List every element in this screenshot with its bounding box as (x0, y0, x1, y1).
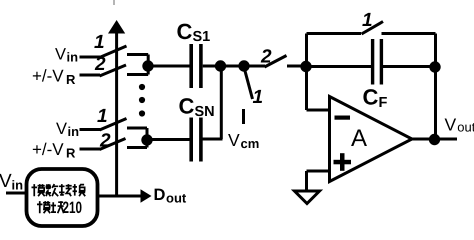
wire +/-V_R top (80, 74, 101, 77)
node V_cm label (228, 130, 259, 151)
svg-text:R: R (66, 146, 76, 161)
svg-text:1: 1 (97, 106, 108, 127)
svg-text:SN: SN (195, 104, 215, 120)
label C_F (363, 85, 388, 112)
node C junction dot (238, 60, 249, 71)
wire vertical joining contacts (147, 55, 150, 75)
wire vertical joining bottom contacts (146, 128, 149, 148)
svg-text:S1: S1 (193, 29, 211, 45)
svg-text:+/-V: +/-V (32, 140, 64, 159)
label ADC text line1 模数转换 (32, 184, 86, 196)
wire vertical node B down to C_SN rail (220, 66, 223, 139)
ADC block 210 (27, 169, 98, 226)
scan artifact tick (113, 0, 115, 5)
wire C_F to right vertical (383, 65, 436, 68)
svg-text:1: 1 (362, 10, 373, 31)
svg-text:2: 2 (99, 131, 111, 152)
switch 1 (feedback reset) (362, 22, 384, 35)
capacitor C_S1 (191, 44, 201, 88)
wire node B to node C (221, 65, 245, 68)
wire to ground (305, 171, 308, 191)
minus sign (335, 116, 351, 120)
ground (295, 191, 320, 204)
wire inverting input (307, 109, 330, 112)
svg-text:2: 2 (94, 54, 106, 75)
svg-text:V: V (0, 171, 12, 192)
capacitor C_SN (191, 118, 201, 162)
wire V_in bottom (80, 128, 101, 131)
svg-text:1: 1 (253, 87, 264, 108)
wire non-inverting input (307, 170, 330, 173)
node F junction dot (429, 61, 440, 72)
switch 2 (to amplifier) (265, 56, 287, 68)
switch 2 (top V_R) (100, 65, 127, 76)
wire contact from switch 1 (bottom group) (127, 127, 147, 130)
svg-text:V: V (56, 120, 67, 138)
svg-text:out: out (457, 120, 474, 135)
switch 2 (bottom V_R) (100, 139, 126, 150)
svg-text:V: V (445, 115, 457, 135)
svg-text:V: V (55, 46, 66, 64)
svg-text:1: 1 (94, 32, 105, 53)
svg-text:D: D (154, 186, 166, 204)
wire node D to C_SN (147, 138, 190, 141)
node V_in label (ADC input) (0, 171, 23, 193)
node E summing junction dot (300, 61, 311, 72)
node B junction dot (215, 60, 226, 71)
svg-text:+/-V: +/-V (32, 67, 64, 86)
wire node C to sampling switch (244, 65, 265, 68)
op-amp U1 (330, 97, 413, 182)
svg-text:V: V (228, 130, 240, 150)
wire node E to C_F (307, 65, 372, 68)
node G output junction dot (429, 134, 440, 145)
wire +/-V_R bottom (80, 148, 101, 151)
wire feedback top right (382, 32, 436, 35)
svg-text:C: C (177, 19, 193, 44)
wire feedback top left (307, 32, 362, 35)
node A junction dot (142, 60, 153, 71)
node V_in label (bottom group) (56, 120, 79, 139)
wire V_cm contact (242, 109, 245, 124)
svg-text:in: in (12, 178, 24, 193)
svg-text:C: C (363, 85, 379, 110)
label C_SN (179, 94, 215, 121)
svg-text:210: 210 (63, 199, 83, 217)
wire feedback left vertical (305, 34, 308, 111)
wire feedback right vertical (434, 34, 437, 140)
node +/-V_R label (top group) (32, 67, 76, 88)
switch 1 (bottom V_in) (100, 119, 127, 131)
wire C_SN right plate to vertical (202, 138, 223, 141)
plus sign (334, 153, 352, 171)
capacitor C_F (373, 39, 382, 85)
svg-text:F: F (379, 95, 388, 111)
wire contact to summing node (287, 65, 307, 68)
node D junction dot (141, 134, 152, 145)
node V_out label (445, 115, 474, 135)
wire C_S1 to node B (203, 65, 220, 68)
wire V_in to ADC block (6, 192, 27, 195)
switch 1 (to V_cm) (245, 71, 253, 99)
wire node A to C_S1 (148, 65, 190, 68)
ellipsis dots (139, 84, 145, 117)
wire contact from switch 2 (127, 73, 148, 76)
switch 1 (top V_in) (100, 46, 127, 58)
label ADC text line2 模块210 (37, 199, 82, 217)
wire contact from switch 1 (127, 53, 148, 56)
svg-text:out: out (166, 191, 187, 206)
bus arrowhead (108, 20, 125, 34)
wire V_in top (80, 56, 101, 59)
svg-text:in: in (67, 50, 79, 65)
node V_in label (top group) (55, 46, 78, 65)
svg-text:A: A (351, 125, 367, 152)
label C_S1 (177, 19, 211, 45)
wire ADC to D_out (98, 195, 147, 198)
svg-text:cm: cm (241, 136, 260, 151)
node D_out label (154, 186, 187, 206)
node +/-V_R label (bottom group) (32, 140, 76, 161)
D_out arrowhead (141, 189, 152, 202)
svg-text:R: R (66, 72, 76, 87)
control bus vertical line (115, 31, 118, 196)
wire op-amp output (412, 138, 457, 141)
svg-text:in: in (68, 124, 80, 139)
wire contact from switch 2 (bottom group) (127, 146, 147, 149)
svg-text:C: C (179, 94, 195, 119)
svg-text:2: 2 (260, 47, 272, 68)
